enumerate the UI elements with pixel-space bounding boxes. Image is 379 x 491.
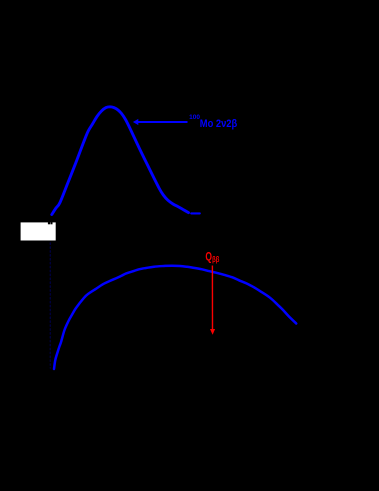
spectrum tail dash	[191, 212, 200, 214]
arrow pointing to curve (blue)	[133, 119, 188, 125]
svg-text:Mo 2ν2β: Mo 2ν2β	[200, 118, 238, 130]
label Qbb (red)	[205, 252, 219, 265]
white box (whiteout rectangle)	[21, 222, 56, 240]
single-electron spectrum arc (bottom blue curve)	[54, 266, 296, 369]
2v2b summed-energy spectrum curve (top bell curve)	[52, 107, 189, 215]
svg-text:ββ: ββ	[212, 255, 219, 264]
dotted navy guide line	[49, 243, 51, 368]
black notches on box top edge	[48, 222, 50, 224]
label 100Mo 2v2b (blue)	[189, 114, 237, 130]
red down arrow at Qbb	[210, 266, 215, 335]
svg-text:Q: Q	[205, 252, 212, 264]
